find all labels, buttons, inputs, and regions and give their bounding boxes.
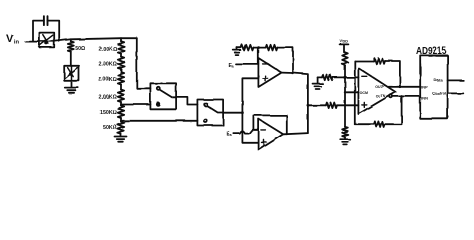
svg-text:OUTN: OUTN: [375, 94, 386, 98]
wire: U1 minus node up to resistor line: [257, 48, 259, 64]
wire: Control output: [448, 92, 464, 94]
resistor ladder R6 50K: [120, 118, 122, 122]
wire: U2 feedback loop: [253, 115, 286, 134]
wire: MUX2 output to opamp rail: [223, 112, 242, 114]
svg-text:Control: Control: [432, 90, 446, 95]
svg-text:150KΩ: 150KΩ: [100, 110, 118, 116]
U1 plus sign: [263, 76, 268, 81]
wire: Ea to U1 minus input: [236, 63, 259, 65]
wire: ladder tap to MUX2 lower contact: [121, 120, 197, 122]
resistor diff amp top feedback: [355, 60, 374, 62]
MUX1 contacts: [157, 87, 160, 90]
capacitor C1 bypass loop wires: [33, 21, 59, 42]
svg-text:VDD: VDD: [340, 40, 348, 44]
svg-text:2.00KΩ: 2.00KΩ: [99, 95, 118, 101]
wire: rail to opamp plus inputs: [242, 78, 258, 143]
MUX1 arm: [160, 90, 177, 98]
resistor 50ohm vertical: [70, 39, 72, 41]
svg-text:Data: Data: [434, 77, 443, 82]
svg-text:2.00KΩ: 2.00KΩ: [99, 47, 118, 53]
resistor divider upper: [344, 44, 345, 52]
resistor ladder R4 2.00K: [120, 85, 122, 90]
svg-text:INP: INP: [421, 84, 428, 89]
wire: divider rail to OCM: [345, 65, 358, 127]
U2 minus sign: [261, 129, 266, 131]
wire: ladder tap to MUX1 lower contact: [121, 104, 150, 106]
ground under ladder: [120, 134, 122, 137]
wire: U1 output: [282, 73, 308, 134]
op-amp U2 triangle: [259, 119, 284, 150]
svg-text:AD9215: AD9215: [416, 46, 447, 57]
svg-text:INN: INN: [421, 95, 428, 100]
wire: OUTP to ADC: [389, 86, 421, 88]
op-amp U3 fully differential triangle: [358, 68, 395, 114]
wire: SW1 output / top rail to ladder: [54, 38, 137, 41]
resistor U1 feedback: [266, 45, 278, 51]
U3 plus sign: [362, 102, 367, 107]
wire: Vin input wire to SW1: [26, 41, 40, 43]
svg-text:Ea: Ea: [228, 63, 234, 69]
wire: to diff amp plus input with resistor: [308, 104, 326, 106]
resistor ladder R3 2.00K: [120, 69, 122, 72]
ground under SW2: [71, 81, 73, 88]
svg-text:OCM: OCM: [360, 91, 368, 95]
svg-text:50KΩ: 50KΩ: [103, 125, 118, 131]
resistor divider lower: [342, 127, 348, 137]
svg-text:2.00KΩ: 2.00KΩ: [99, 77, 118, 83]
wire: through SW2: [71, 66, 73, 81]
capacitor C1 plates: [44, 16, 48, 25]
op-amp U1 triangle: [258, 58, 281, 87]
U2 plus sign: [262, 140, 267, 145]
switch MUX1 box: [150, 83, 176, 109]
switch SW2 box: [64, 66, 79, 81]
svg-text:Vin: Vin: [6, 33, 19, 46]
svg-text:50Ω: 50Ω: [75, 46, 85, 52]
wire: MUX1 output to MUX2: [176, 97, 197, 105]
ground at diff amp minus input resistor: [317, 77, 319, 83]
resistor diff amp bottom feedback: [355, 123, 374, 125]
wire: through SW1: [39, 40, 54, 42]
resistor diff amp minus input: [318, 76, 322, 78]
wire: U2 output: [283, 133, 308, 134]
ground at U1 input resistor: [236, 48, 238, 50]
resistor ladder R2 2.00K: [120, 54, 122, 57]
U1 minus sign: [263, 63, 268, 65]
switch SW2 symbol: [64, 68, 77, 79]
U3 OUTN inverting bubble: [390, 95, 393, 98]
switch SW1 symbol: [39, 35, 53, 47]
wire: Ea to U2 minus with hop over rail: [234, 130, 259, 134]
resistor ladder R5 150K: [120, 102, 122, 105]
wire: diff amp left vertical (feedback bus): [354, 61, 356, 124]
switch MUX2 box: [197, 100, 223, 126]
switch SW1 box: [39, 33, 54, 48]
power VDD bar: [340, 43, 349, 45]
IC ADC AD9215 box: [420, 55, 447, 118]
ground under divider: [340, 139, 350, 144]
svg-text:Ea: Ea: [227, 132, 233, 138]
MUX2 arm: [207, 106, 223, 113]
wire: OUTN to ADC: [393, 95, 421, 97]
svg-text:OUTP: OUTP: [375, 85, 386, 89]
U3 minus sign: [362, 75, 367, 77]
resistor ladder R1 2.00K: [120, 38, 122, 41]
svg-text:2.00KΩ: 2.00KΩ: [99, 62, 118, 68]
wire: Vin direct line down to MUX1 upper contact: [137, 38, 151, 88]
MUX2 contacts: [204, 103, 207, 106]
resistor U1 input: [237, 47, 241, 49]
wire: Data output: [448, 79, 464, 81]
